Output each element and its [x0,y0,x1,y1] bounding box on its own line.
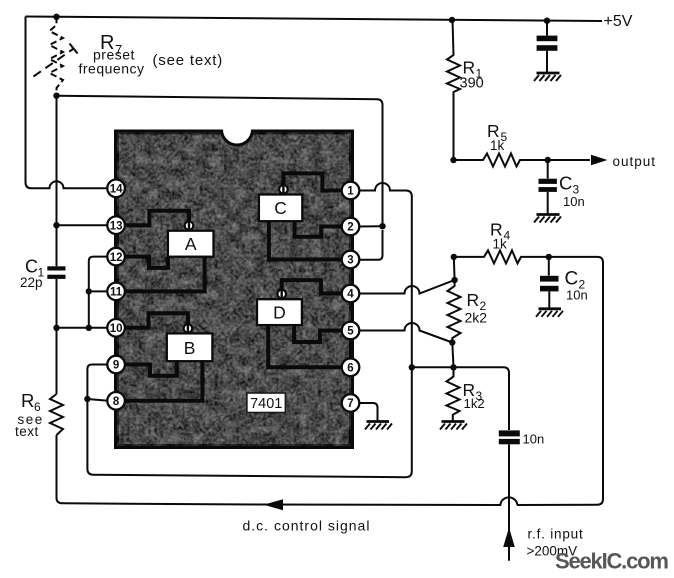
ground for decoupling cap [534,73,561,81]
svg-text:10: 10 [110,323,123,335]
resistor R1 [447,20,460,160]
svg-text:11: 11 [110,287,123,299]
pin 2 [342,218,360,236]
svg-text:text: text [15,424,39,439]
node pin11 junction [86,288,92,294]
gate C input wire from pin 3 [269,221,356,259]
pin 14 [107,180,125,198]
wire pin6 line to coupling cap [412,367,509,430]
svg-text:4: 4 [347,289,354,301]
svg-text:12: 12 [110,252,123,264]
gate A internal output wire to pin 13 [111,211,189,229]
gate D input wire from pin 5 [294,325,356,342]
resistor R3 [447,367,460,421]
node pin 2 junction [379,223,385,229]
ground for R3 [440,422,467,430]
wire +5V rail [26,17,603,22]
wire pin 9 down to pin 8 [87,365,108,400]
gate D internal output wire to pin 4 [282,280,356,297]
svg-text:13: 13 [110,220,123,232]
gate B input wire from pin 8 [111,361,202,401]
gate A input wire from pin 11 [111,257,205,292]
svg-text:10n: 10n [566,288,588,303]
resistor R6 [50,394,63,435]
node pin8 junction [84,396,90,402]
wire pin 10 stub [57,327,109,329]
svg-text:SeekIC.com: SeekIC.com [555,549,668,574]
pin 10 [107,319,125,337]
svg-text:10n: 10n [523,432,545,447]
ground for pin 7 [365,422,392,430]
svg-text:+5V: +5V [604,13,633,30]
pin 13 [107,216,125,234]
pin 12 [107,248,125,266]
node pin13 junction [53,222,59,228]
wire left outer vertical to pin 14 with hop over C1 line [26,17,109,189]
7401 label box [247,393,286,413]
wire pin 2 stub [359,225,383,227]
wire pin 4 with hop to R2 top [359,280,455,294]
node R4 left [451,254,457,260]
wire pin 13 stub [57,224,109,226]
node R3 top [450,364,456,370]
svg-text:3: 3 [347,255,353,267]
wire pin 12 down to pin10 line [89,257,108,328]
svg-text:D: D [273,303,286,323]
pin 6 [342,359,360,377]
svg-text:C: C [565,269,579,290]
capacitor C3 [539,160,557,214]
wire pin 8 stub [87,399,108,401]
capacitor C1 [47,266,65,279]
node R7 bottom [53,93,59,99]
svg-text:390: 390 [460,76,484,92]
svg-text:2: 2 [347,222,353,234]
pin 1 [342,182,360,200]
node R7 top [53,14,59,20]
capacitor C2 [540,257,559,308]
wire R7 rail to pins 2,3 vertical [57,96,383,227]
node C3 junction [545,157,551,163]
pin 3 [342,251,360,269]
pin 11 [107,283,125,301]
decoupling capacitor at +5V [537,21,558,73]
IC notch [222,127,253,145]
node pin6 junction [409,364,415,370]
pin 7 [342,394,360,412]
pin 9 [107,356,125,374]
dc control arrow [264,499,284,510]
wire pin 5 with hop to R2 bottom [359,323,453,342]
gate A output bubble [185,221,194,231]
svg-text:r.f. input: r.f. input [528,527,584,542]
svg-text:frequency: frequency [79,61,145,77]
wire pin 1 with hop, down right side to bottom wrap [87,183,411,477]
svg-text:R: R [467,290,480,310]
svg-text:C: C [25,257,38,277]
pin 5 [342,322,360,340]
gate A box [168,231,214,257]
svg-text:B: B [184,338,196,358]
pin 8 [107,392,125,410]
node pin10 junction [53,325,59,331]
node R2 bottom [449,339,455,345]
gate D input wire from pin 6 [268,325,356,367]
wire dc control line with hop over rf input [262,497,517,505]
gate B input wire from pin 9 [111,361,177,376]
gate C output bubble [279,184,288,194]
resistor R4 [454,250,549,263]
gate D box [257,299,302,325]
wire pin 7 to ground [359,403,378,421]
svg-text:10n: 10n [563,194,585,209]
node pin10/12 junction [86,325,92,331]
rf input arrow [503,528,515,548]
wire C1/R6 left column [57,96,263,505]
resistor R5 [454,154,591,167]
svg-text:A: A [185,234,197,254]
gate B internal output wire to pin 10 [111,313,188,332]
preset resistor R7 [34,17,78,96]
gate C input wire from pin 2 [295,221,357,237]
IC U1 7401 body [117,132,352,447]
wire R4 node down to R2 top [453,257,456,280]
svg-text:22p: 22p [20,275,43,290]
node R2 top [451,277,457,283]
wire R2 bottom down to R3 node [452,343,453,368]
node top cap junction [544,18,550,24]
gate C box [259,195,302,222]
svg-text:9: 9 [113,360,119,372]
resistor R2 [448,280,461,343]
svg-text:1k: 1k [490,138,505,153]
svg-text:C: C [274,198,287,218]
svg-text:7: 7 [347,398,353,410]
svg-text:5: 5 [347,326,354,338]
wire rf input vertical [508,444,510,560]
svg-text:1k: 1k [493,237,508,252]
svg-text:d.c. control signal: d.c. control signal [243,518,371,534]
coupling capacitor 10n [499,430,520,444]
svg-text:2k2: 2k2 [465,310,488,326]
wire pin 11 stub [89,290,108,292]
svg-text:R: R [21,390,34,411]
svg-text:1k2: 1k2 [464,396,485,411]
gate D output bubble [277,289,286,299]
node C2 junction [546,254,552,260]
pin 4 [342,285,360,303]
svg-text:1: 1 [347,186,354,198]
svg-text:6: 6 [347,363,353,375]
gate B box [167,333,213,361]
svg-text:output: output [613,154,657,169]
gate B output bubble [184,323,193,333]
svg-text:R: R [463,58,476,78]
wire C2 node right and down to dc line [517,257,603,505]
svg-text:7401: 7401 [250,396,282,412]
gate C internal output wire to pin 1 [283,173,356,193]
svg-text:(see text): (see text) [153,52,224,69]
node R1 top [449,17,455,23]
ground for C3 [534,215,561,223]
ground for C2 [536,309,563,317]
svg-text:14: 14 [110,184,123,196]
svg-text:C: C [559,173,572,194]
output arrow [591,155,608,165]
wire pin 3 to pin2 node [359,230,383,260]
node R5 left [450,157,456,163]
gate A input wire from pin 12 [111,257,168,268]
svg-text:8: 8 [113,396,120,408]
